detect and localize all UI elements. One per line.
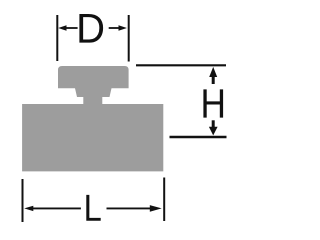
D dimension arrow right [109, 25, 127, 30]
L dimension arrow right [107, 205, 162, 212]
H dimension arrow down [209, 120, 218, 135]
label D [79, 14, 103, 43]
D extension line left [56, 15, 58, 61]
valve body [22, 104, 163, 171]
H extension line top [136, 64, 226, 66]
L dimension arrow left [24, 206, 81, 211]
D dimension arrow left [58, 25, 77, 30]
D extension line right [128, 15, 130, 62]
label H [203, 89, 223, 117]
H dimension arrow up [209, 67, 217, 84]
L extension line left [22, 179, 24, 222]
label L [86, 195, 100, 221]
L extension line right [163, 178, 165, 222]
H extension line bottom [170, 136, 227, 138]
valve cap / handle [58, 66, 129, 105]
